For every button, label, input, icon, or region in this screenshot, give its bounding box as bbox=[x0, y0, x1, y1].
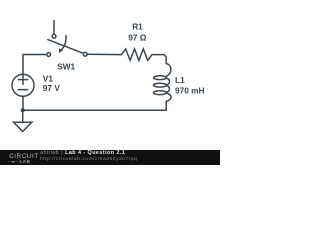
resistor R1 bbox=[121, 49, 152, 61]
switch SW1 top throw contact bbox=[52, 34, 56, 38]
node junction dot bbox=[21, 108, 25, 112]
V1 minus sign bbox=[18, 89, 27, 91]
svg-text:L1: L1 bbox=[175, 75, 185, 85]
voltage source V1 bbox=[12, 74, 34, 96]
svg-text:970 mH: 970 mH bbox=[175, 85, 205, 95]
svg-text:97 V: 97 V bbox=[43, 83, 61, 93]
wire left throw to V1 top bbox=[23, 55, 47, 74]
wire R1 to corner bbox=[152, 55, 166, 64]
inductor L1 bbox=[154, 64, 172, 111]
ground symbol bbox=[14, 122, 32, 131]
V1 plus sign bbox=[18, 79, 27, 81]
svg-text:V1: V1 bbox=[43, 73, 54, 83]
switch SW1 left throw contact bbox=[47, 53, 51, 57]
switch SW1 toggle arrow bbox=[61, 36, 66, 50]
svg-text:SW1: SW1 bbox=[57, 61, 75, 71]
switch SW1 blade bbox=[48, 40, 84, 54]
watermark text line 2 bbox=[40, 157, 137, 162]
wire V1 bottom to ground node bbox=[22, 96, 24, 110]
switch SW1 common contact bbox=[83, 52, 87, 56]
svg-text:97 Ω: 97 Ω bbox=[128, 33, 147, 43]
watermark bar bbox=[0, 150, 220, 165]
svg-text:R1: R1 bbox=[132, 21, 143, 31]
watermark text line 1 bbox=[40, 151, 125, 156]
wire common to R1 bbox=[87, 53, 121, 55]
wire stub top throw bbox=[53, 21, 55, 34]
wire ground stem bbox=[22, 110, 24, 122]
CircuitLab logo bbox=[9, 154, 39, 160]
bottom wire bbox=[23, 109, 167, 111]
